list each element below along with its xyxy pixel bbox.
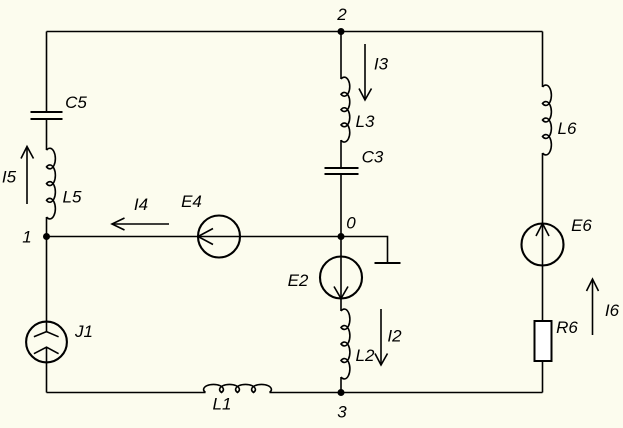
- svg-text:C3: C3: [362, 148, 384, 167]
- svg-text:I6: I6: [605, 301, 620, 320]
- svg-text:I5: I5: [2, 168, 17, 187]
- svg-text:I3: I3: [374, 55, 389, 74]
- svg-text:L2: L2: [356, 346, 375, 365]
- svg-text:L1: L1: [213, 395, 232, 414]
- svg-text:I4: I4: [134, 195, 148, 214]
- svg-text:C5: C5: [65, 93, 87, 112]
- svg-text:2: 2: [336, 5, 347, 24]
- svg-text:L5: L5: [63, 188, 82, 207]
- svg-text:1: 1: [22, 228, 31, 247]
- svg-text:J1: J1: [74, 322, 93, 341]
- svg-text:L6: L6: [558, 119, 577, 138]
- svg-text:I2: I2: [387, 327, 402, 346]
- svg-text:E4: E4: [181, 192, 202, 211]
- svg-text:E6: E6: [571, 216, 592, 235]
- svg-text:R6: R6: [556, 318, 578, 337]
- svg-text:3: 3: [337, 403, 347, 422]
- svg-text:E2: E2: [288, 271, 309, 290]
- svg-text:0: 0: [346, 214, 356, 233]
- svg-text:L3: L3: [356, 112, 375, 131]
